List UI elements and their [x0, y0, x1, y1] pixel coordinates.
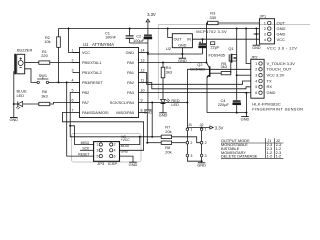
- svg-text:IN: IN: [187, 37, 191, 41]
- connector JP2: [251, 54, 304, 111]
- svg-text:20k: 20k: [165, 150, 171, 155]
- wire GND bus: [207, 112, 247, 114]
- resistor R2 10k: [44, 29, 60, 83]
- wire MISO branch: [69, 125, 93, 145]
- svg-text:4: 4: [255, 79, 257, 83]
- svg-text:J2: J2: [199, 122, 203, 127]
- wire J1 J2 pin3 to GND: [187, 157, 202, 163]
- wire pin10 to JP2 GND row: [146, 92, 247, 94]
- jumper J1: [186, 122, 192, 158]
- svg-text:JP1: JP1: [260, 14, 267, 19]
- svg-text:13: 13: [141, 59, 145, 63]
- node NC: [121, 135, 126, 139]
- svg-text:VCC 3.6 - 12V: VCC 3.6 - 12V: [267, 45, 297, 50]
- svg-text:OUT: OUT: [174, 37, 183, 41]
- svg-text:330: 330: [210, 15, 217, 20]
- svg-text:U2: U2: [166, 46, 172, 51]
- blue LED: [13, 71, 27, 109]
- wire Q1 drain to JP2 VCC / C4: [236, 61, 251, 101]
- svg-text:J1: J1: [188, 122, 192, 127]
- svg-text:3k3: 3k3: [41, 94, 47, 99]
- svg-text:PA2: PA2: [127, 81, 134, 85]
- svg-text:4: 4: [114, 149, 116, 153]
- svg-text:1: 1: [205, 128, 207, 132]
- svg-text:2: 2: [114, 143, 116, 147]
- svg-text:3k3: 3k3: [221, 64, 227, 69]
- wire buzzer to SW1: [25, 69, 37, 83]
- svg-text:3: 3: [97, 149, 99, 153]
- svg-text:14: 14: [141, 49, 145, 53]
- svg-text:PA0: PA0: [127, 61, 134, 65]
- op-amp U1 ATTINY84A (MCU): [80, 42, 139, 118]
- svg-text:LED: LED: [171, 102, 179, 107]
- svg-text:TX: TX: [267, 78, 272, 83]
- svg-text:1: 1: [255, 62, 257, 66]
- svg-text:SCK/SCL/PA4: SCK/SCL/PA4: [110, 101, 134, 105]
- resistor R8 20k: [147, 141, 186, 155]
- svg-text:2: 2: [190, 141, 192, 145]
- svg-text:GND: GND: [159, 113, 168, 118]
- svg-text:GND: GND: [178, 44, 187, 48]
- svg-text:5: 5: [97, 154, 99, 158]
- node SCK: [82, 147, 90, 151]
- resistor R5 3k3: [221, 61, 231, 75]
- svg-text:MOSI: MOSI: [121, 144, 130, 148]
- wire Q2 collector to R3 rail: [206, 23, 208, 63]
- svg-text:U1: U1: [83, 42, 89, 47]
- svg-text:V_TOUCH 3.3V: V_TOUCH 3.3V: [267, 61, 296, 66]
- connector JP1: [259, 14, 297, 51]
- svg-text:+VCC: +VCC: [121, 138, 131, 142]
- svg-text:22µF: 22µF: [211, 44, 221, 49]
- svg-text:20k: 20k: [165, 129, 171, 134]
- U1 pin stubs and numbers: [72, 49, 147, 113]
- svg-text:GND: GND: [197, 163, 206, 168]
- wire JP3 GND: [120, 150, 134, 163]
- svg-text:GND: GND: [129, 162, 138, 167]
- regulator U2 MCP1702: [166, 29, 227, 51]
- wire caps to GND: [130, 43, 148, 53]
- svg-text:2: 2: [72, 59, 74, 63]
- ground (JP3): [129, 162, 138, 167]
- svg-text:PA6/SDA/MOSI: PA6/SDA/MOSI: [82, 111, 109, 115]
- svg-text:2: 2: [205, 141, 207, 145]
- wire rail to U2 OUT: [167, 28, 173, 38]
- red LED: [161, 98, 180, 113]
- svg-text:PB2: PB2: [82, 91, 89, 95]
- jumper J2: [199, 122, 206, 158]
- svg-text:JP3: JP3: [97, 161, 105, 166]
- svg-text:6: 6: [255, 91, 257, 95]
- connector JP3 ICSP: [94, 142, 120, 166]
- svg-text:GND: GND: [277, 31, 286, 36]
- wire rail to Q1 source: [236, 28, 238, 55]
- svg-text:1-2: 1-2: [267, 154, 273, 159]
- svg-text:3.3V: 3.3V: [215, 125, 224, 130]
- buzzer: [15, 49, 32, 75]
- svg-text:3.3V: 3.3V: [147, 12, 156, 17]
- svg-text:12: 12: [141, 69, 145, 73]
- wire 3.3V jumper rail: [187, 127, 209, 129]
- resistor R1 220: [25, 49, 80, 65]
- svg-text:GND: GND: [252, 45, 261, 50]
- svg-text:MISO/PA5: MISO/PA5: [116, 111, 134, 115]
- wire pin9 to TOUCH_OUT and jumper rail: [146, 69, 251, 127]
- node MISO: [81, 141, 90, 145]
- svg-text:TOUCH_OUT: TOUCH_OUT: [267, 67, 292, 72]
- transistor Q2 BC548B: [190, 62, 221, 78]
- svg-text:PA7: PA7: [82, 101, 89, 105]
- svg-text:220: 220: [41, 53, 48, 58]
- svg-text:OUT: OUT: [277, 20, 286, 25]
- jumper configuration table: [221, 138, 284, 158]
- svg-text:VCC: VCC: [82, 51, 90, 55]
- wire U2 IN to JP1 VCC: [192, 38, 259, 40]
- svg-text:GND: GND: [267, 90, 276, 95]
- wire 3.3V to JP2 V_TOUCH: [245, 28, 251, 64]
- svg-text:LED: LED: [17, 93, 25, 98]
- svg-text:VCC: VCC: [277, 37, 286, 42]
- wire Q2 emitter to GND: [206, 78, 208, 113]
- svg-text:1: 1: [264, 21, 266, 25]
- svg-text:3: 3: [205, 154, 207, 158]
- ground (red LED): [159, 113, 168, 118]
- resistor R4 3k3: [161, 63, 172, 100]
- svg-text:3: 3: [190, 154, 192, 158]
- svg-text:GND: GND: [241, 116, 250, 121]
- svg-text:3: 3: [72, 69, 74, 73]
- svg-text:3: 3: [264, 32, 266, 36]
- section frame (power, top right): [158, 25, 310, 100]
- wire pin8 riser to R8: [146, 113, 148, 144]
- svg-text:1-2: 1-2: [276, 154, 282, 159]
- node RESET: [78, 153, 89, 157]
- svg-text:DELETE DATABASE: DELETE DATABASE: [221, 154, 258, 159]
- wire JP1 GND pins: [254, 28, 260, 46]
- transistor Q1 FDS9435 (P-MOSFET): [209, 46, 237, 63]
- power arrow 3.3V (jumpers): [210, 125, 224, 130]
- svg-text:BUZZER: BUZZER: [17, 49, 32, 53]
- capacitor C3 22uF: [199, 38, 220, 54]
- wire 3.3V rail: [59, 28, 260, 30]
- svg-text:3: 3: [255, 74, 257, 78]
- svg-text:ATTINY84A: ATTINY84A: [92, 42, 114, 47]
- capacitor C4 220uF: [218, 98, 241, 113]
- svg-text:4: 4: [264, 38, 266, 42]
- svg-text:MCP1702 3.3V: MCP1702 3.3V: [196, 29, 227, 34]
- svg-text:PA1: PA1: [127, 71, 134, 75]
- wire SW1 to pin4 RESET: [49, 81, 80, 83]
- wire pin5 to R7 line: [70, 93, 152, 137]
- svg-text:Q1: Q1: [228, 46, 233, 51]
- svg-text:GND: GND: [144, 110, 153, 115]
- power arrow 3.3V: [146, 12, 156, 28]
- svg-text:2: 2: [264, 27, 266, 31]
- svg-text:PB3/RESET: PB3/RESET: [82, 81, 104, 85]
- svg-text:GND: GND: [121, 150, 129, 154]
- svg-text:1: 1: [190, 128, 192, 132]
- capacitor C1 100nF: [105, 28, 134, 44]
- wire SCK stub: [80, 149, 94, 151]
- svg-text:GND: GND: [126, 51, 135, 55]
- svg-text:FDS9435: FDS9435: [209, 52, 225, 57]
- svg-text:100µF: 100µF: [133, 38, 145, 43]
- svg-text:SW1: SW1: [39, 73, 47, 78]
- wire pin12 to TX: [146, 73, 251, 85]
- svg-text:100nF: 100nF: [105, 34, 117, 39]
- svg-text:JP2: JP2: [251, 54, 258, 59]
- switch SW1: [37, 73, 49, 84]
- svg-text:FINGERPRINT SENSOR: FINGERPRINT SENSOR: [252, 107, 303, 112]
- svg-text:8: 8: [141, 109, 143, 113]
- wire GND bus (U2/C3/C1): [147, 53, 203, 55]
- wire pin11 to RX: [146, 83, 251, 89]
- wire +VCC to 3.3V rail: [120, 136, 141, 145]
- resistor R6 3k3: [23, 89, 80, 106]
- svg-text:PB0/XTAL1: PB0/XTAL1: [82, 61, 102, 65]
- wire pin14 GND: [146, 52, 149, 111]
- svg-text:6: 6: [114, 154, 116, 158]
- wire SW1 net to RESET: [67, 82, 94, 156]
- svg-text:3k3: 3k3: [166, 69, 172, 74]
- svg-text:GND: GND: [9, 117, 18, 122]
- ground (JP2/C4): [241, 113, 250, 122]
- resistor R3 330: [208, 11, 260, 25]
- svg-text:VCC 3.3V: VCC 3.3V: [267, 73, 285, 78]
- resistor R7 20k: [152, 125, 200, 143]
- svg-text:RX: RX: [267, 84, 273, 89]
- svg-text:5: 5: [255, 85, 257, 89]
- svg-text:1: 1: [97, 143, 99, 147]
- svg-text:GND: GND: [277, 26, 286, 31]
- section frame (ICSP, bottom left): [72, 134, 142, 163]
- wire JP2 GND: [246, 93, 250, 113]
- svg-text:220µF: 220µF: [218, 102, 230, 107]
- svg-text:PA3: PA3: [127, 91, 134, 95]
- ground (JP1): [252, 45, 261, 50]
- capacitor C2 100uF: [133, 29, 152, 44]
- wire MOSI to pin7: [62, 113, 143, 151]
- svg-text:2: 2: [255, 68, 257, 72]
- wire pin13 net: [146, 62, 207, 64]
- wire VCC to pin1: [68, 28, 80, 53]
- svg-text:10: 10: [141, 89, 145, 93]
- svg-text:11: 11: [141, 79, 145, 83]
- ground (pin14/C1/C2): [144, 110, 153, 115]
- svg-text:10k: 10k: [44, 39, 50, 44]
- svg-text:PB1/XTAL2: PB1/XTAL2: [82, 71, 102, 75]
- ground (J1/J2): [197, 163, 206, 168]
- svg-text:9: 9: [141, 99, 143, 103]
- svg-text:ICSP: ICSP: [108, 161, 118, 166]
- ground (blue LED): [9, 104, 18, 122]
- ground (U2): [178, 48, 187, 63]
- wire pin9 riser to R7: [151, 102, 153, 138]
